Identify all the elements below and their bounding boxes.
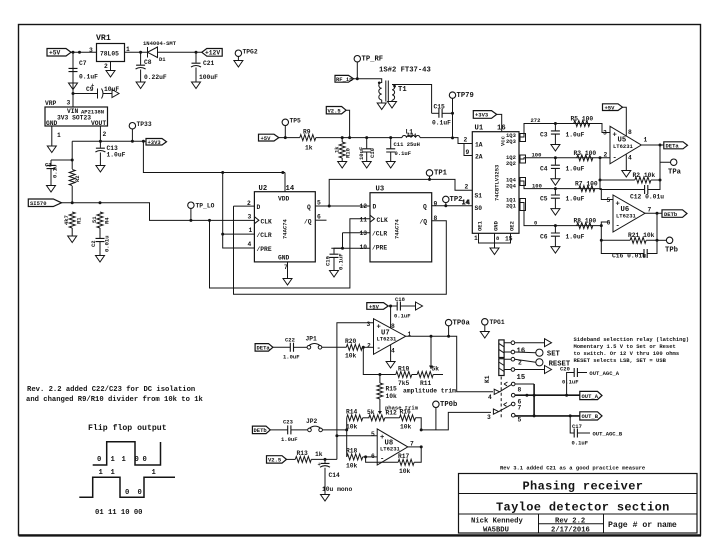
test point TP5 bbox=[282, 118, 301, 140]
test point TP_RF bbox=[354, 56, 383, 79]
svg-text:13: 13 bbox=[360, 230, 368, 237]
svg-text:3V3 SOT23: 3V3 SOT23 bbox=[57, 115, 91, 122]
svg-text:TPG1: TPG1 bbox=[490, 319, 505, 326]
svg-text:/CLR: /CLR bbox=[372, 231, 387, 238]
svg-text:3: 3 bbox=[367, 321, 371, 328]
svg-text:/CLR: /CLR bbox=[257, 232, 272, 239]
svg-text:R7 100: R7 100 bbox=[575, 181, 598, 188]
resistor R5 100 bbox=[574, 121, 590, 127]
svg-text:2Q3: 2Q3 bbox=[506, 138, 517, 145]
svg-text:1.0uF: 1.0uF bbox=[107, 152, 126, 159]
svg-text:4: 4 bbox=[248, 241, 252, 248]
U1 output row2 wire (100) bbox=[519, 158, 610, 159]
diode D1 1N4004-SMT bbox=[143, 40, 177, 63]
svg-text:+: + bbox=[91, 82, 95, 89]
svg-text:3: 3 bbox=[248, 214, 252, 221]
transformer T1 1S#2 FT37-43 bbox=[377, 67, 431, 114]
net flag DETb bbox=[662, 210, 687, 218]
U8 output node bbox=[408, 446, 421, 448]
K1 dashed link bbox=[500, 377, 502, 419]
svg-text:14: 14 bbox=[462, 200, 471, 208]
capacitor C10 10uF bbox=[366, 138, 368, 149]
svg-text:5: 5 bbox=[607, 197, 611, 204]
svg-text:1A: 1A bbox=[475, 142, 483, 149]
svg-text:1: 1 bbox=[408, 331, 412, 338]
svg-text:0.1uF: 0.1uF bbox=[572, 440, 589, 447]
IC U1 74CBTLV3253 bbox=[472, 125, 519, 234]
flipflop U2 74AC74 bbox=[254, 185, 315, 262]
svg-text:OUT_AGC_B: OUT_AGC_B bbox=[593, 431, 623, 438]
svg-text:1k: 1k bbox=[305, 145, 313, 152]
svg-text:-: - bbox=[613, 155, 617, 163]
wire RF_in to T1 bbox=[354, 79, 382, 83]
power flag +12V (input) bbox=[202, 49, 222, 57]
VRP GND pin1 bbox=[51, 126, 53, 146]
resistor R8 100 bbox=[577, 223, 593, 229]
U3 /Q wrap to U2 D bbox=[234, 206, 447, 294]
svg-text:78L05: 78L05 bbox=[100, 51, 119, 58]
wire 3V3 node row bbox=[72, 140, 146, 142]
svg-text:C22: C22 bbox=[285, 337, 295, 344]
wire +5V to VR1 bbox=[71, 51, 97, 53]
net flag DETb (audio input) bbox=[252, 426, 270, 434]
svg-text:1: 1 bbox=[99, 469, 104, 477]
svg-text:C21: C21 bbox=[203, 60, 215, 67]
RESET pushbutton bbox=[515, 359, 536, 362]
svg-text:TPa: TPa bbox=[668, 169, 682, 177]
capacitor C16 0.01u (U6 fb) bbox=[601, 240, 657, 253]
svg-text:C23: C23 bbox=[283, 419, 294, 426]
svg-text:R12: R12 bbox=[386, 410, 398, 417]
svg-text:R21 10k: R21 10k bbox=[628, 232, 655, 239]
svg-text:+: + bbox=[613, 132, 617, 140]
svg-text:DETb: DETb bbox=[664, 211, 678, 218]
capacitor C11 0.1uF bbox=[390, 138, 392, 149]
svg-text:C7: C7 bbox=[79, 60, 87, 67]
svg-text:0.01u: 0.01u bbox=[104, 235, 111, 252]
svg-text:0.1uF: 0.1uF bbox=[338, 253, 345, 270]
svg-text:Sideband selection relay (latc: Sideband selection relay (latching) bbox=[574, 336, 690, 343]
svg-text:OUT_AGC_A: OUT_AGC_A bbox=[589, 370, 619, 377]
svg-text:4: 4 bbox=[628, 155, 632, 162]
svg-text:DETa: DETa bbox=[257, 345, 271, 352]
U3 Q to U1 S0 bbox=[432, 205, 473, 207]
svg-text:C14: C14 bbox=[329, 472, 341, 479]
wire 3V3 down-left to SI570 node bbox=[71, 141, 73, 160]
svg-text:2Q2: 2Q2 bbox=[506, 160, 516, 167]
svg-text:VR1: VR1 bbox=[96, 34, 111, 43]
capacitor C20 0.1uF to OUT_AGC_A bbox=[567, 373, 575, 396]
wire SI570 LO row bbox=[62, 203, 255, 221]
svg-text:R8 100: R8 100 bbox=[574, 218, 597, 225]
capacitor C13 1.0uF bbox=[99, 141, 101, 148]
svg-text:RF_in: RF_in bbox=[336, 76, 353, 83]
svg-text:JP1: JP1 bbox=[306, 336, 318, 343]
op-amp U6 LT6231 bbox=[607, 195, 652, 232]
svg-text:OE2: OE2 bbox=[509, 221, 516, 231]
svg-text:5k: 5k bbox=[367, 409, 375, 416]
svg-text:C3: C3 bbox=[540, 132, 548, 139]
svg-text:+5V: +5V bbox=[261, 135, 272, 142]
svg-text:0.1uF: 0.1uF bbox=[79, 74, 98, 81]
U7 pin4 ground bbox=[390, 345, 392, 362]
svg-text:2A: 2A bbox=[475, 154, 483, 161]
svg-text:1: 1 bbox=[152, 469, 157, 477]
svg-text:+5V: +5V bbox=[49, 50, 61, 57]
svg-text:GND: GND bbox=[493, 220, 500, 231]
svg-text:16: 16 bbox=[517, 348, 526, 356]
svg-text:2: 2 bbox=[367, 343, 371, 350]
svg-text:DETa: DETa bbox=[666, 143, 680, 150]
op-amp U5 LT6231 bbox=[603, 126, 648, 164]
relay switch A bbox=[488, 382, 522, 406]
inductor L1 bbox=[402, 129, 420, 140]
test point TPb bbox=[657, 237, 678, 254]
svg-text:10k: 10k bbox=[386, 393, 398, 400]
test point TP79 bbox=[449, 92, 473, 138]
U6 output wire to DETb bbox=[645, 212, 662, 214]
capacitor C21 100uF bbox=[195, 52, 197, 63]
U2 D input wire bbox=[234, 205, 255, 207]
svg-text:3: 3 bbox=[67, 100, 71, 107]
svg-text:/PRE: /PRE bbox=[257, 246, 272, 253]
svg-text:GND: GND bbox=[278, 255, 290, 262]
svg-text:2: 2 bbox=[465, 184, 469, 191]
title block frame bbox=[459, 474, 698, 534]
svg-text:Rev. 2.2 added C22/C23 for DC: Rev. 2.2 added C22/C23 for DC isolation bbox=[27, 386, 195, 394]
svg-text:D: D bbox=[257, 204, 261, 211]
U1 output row3 wire (100) bbox=[519, 181, 613, 200]
svg-text:VOUT: VOUT bbox=[91, 120, 106, 127]
test point TP_LO bbox=[188, 202, 215, 222]
svg-text:1.0uF: 1.0uF bbox=[566, 132, 585, 139]
svg-text:15: 15 bbox=[505, 236, 513, 243]
svg-text:10uF: 10uF bbox=[358, 147, 365, 160]
svg-text:Page # or name: Page # or name bbox=[608, 521, 677, 530]
svg-text:11: 11 bbox=[360, 217, 368, 224]
svg-text:R11: R11 bbox=[420, 380, 432, 387]
svg-text:10u mono: 10u mono bbox=[322, 486, 352, 493]
U7 output bbox=[406, 336, 493, 392]
capacitor C22 1.0uF bbox=[273, 346, 290, 348]
svg-text:+3V3: +3V3 bbox=[475, 112, 489, 119]
svg-text:VDD: VDD bbox=[278, 196, 290, 203]
svg-text:10k: 10k bbox=[345, 353, 357, 360]
svg-text:1: 1 bbox=[644, 137, 648, 144]
op-amp U7 LT6231 (audio I) bbox=[367, 319, 412, 355]
svg-text:R9: R9 bbox=[303, 129, 311, 136]
svg-text:0: 0 bbox=[135, 456, 139, 464]
resistor R4 51 bbox=[97, 212, 103, 228]
svg-text:R2: R2 bbox=[74, 175, 81, 182]
svg-text:8: 8 bbox=[518, 387, 522, 394]
op-amp U8 LT6231 (audio Q) bbox=[371, 429, 414, 465]
U2 VDD drop bbox=[283, 173, 285, 192]
relay K1 coil 2 bbox=[499, 359, 504, 376]
resistor R16 10k bbox=[400, 415, 416, 421]
svg-text:C10: C10 bbox=[369, 148, 376, 158]
svg-text:/Q: /Q bbox=[420, 219, 428, 226]
capacitor C1 0.1uF bbox=[51, 159, 72, 161]
svg-text:2/17/2016: 2/17/2016 bbox=[551, 527, 590, 535]
svg-text:V2.5: V2.5 bbox=[328, 108, 342, 115]
svg-text:5: 5 bbox=[317, 200, 321, 207]
svg-text:WA5BDU: WA5BDU bbox=[483, 527, 509, 535]
svg-text:1: 1 bbox=[111, 469, 116, 477]
svg-text:amplitude trim: amplitude trim bbox=[403, 388, 456, 395]
svg-text:7k5: 7k5 bbox=[398, 380, 410, 387]
svg-text:R16: R16 bbox=[400, 409, 412, 416]
svg-text:U1: U1 bbox=[475, 125, 484, 133]
note sideband selection bbox=[574, 336, 690, 364]
svg-text:R2 10k: R2 10k bbox=[633, 172, 656, 179]
svg-text:0: 0 bbox=[138, 489, 142, 497]
VRP VOUT pin2 to 3V3 node bbox=[99, 126, 101, 141]
svg-text:5k: 5k bbox=[432, 366, 440, 373]
svg-text:1k: 1k bbox=[334, 146, 341, 153]
svg-text:100: 100 bbox=[532, 152, 542, 159]
svg-text:74AC74: 74AC74 bbox=[394, 218, 401, 239]
svg-text:+5V: +5V bbox=[605, 104, 616, 111]
wire JP1 to R20 bbox=[322, 346, 347, 348]
svg-text:TP_RF: TP_RF bbox=[362, 56, 384, 64]
svg-text:TP1: TP1 bbox=[434, 170, 448, 178]
svg-text:R17: R17 bbox=[398, 453, 410, 460]
svg-text:GND: GND bbox=[46, 120, 58, 127]
jumper JP1 bbox=[306, 336, 322, 350]
svg-text:2: 2 bbox=[464, 137, 468, 144]
svg-text:OUT_B: OUT_B bbox=[582, 413, 599, 420]
svg-text:R14: R14 bbox=[346, 409, 358, 416]
svg-text:3: 3 bbox=[89, 47, 93, 54]
svg-text:0.1uF: 0.1uF bbox=[562, 379, 579, 386]
svg-text:8: 8 bbox=[391, 323, 395, 330]
svg-text:C6: C6 bbox=[540, 234, 548, 241]
relay output wires to OUT_A bbox=[515, 394, 580, 396]
capacitor C14 10u mono bbox=[324, 459, 326, 463]
resistor R18 10k bbox=[347, 454, 363, 460]
svg-text:C17: C17 bbox=[572, 423, 582, 430]
svg-text:-: - bbox=[377, 345, 381, 353]
power flag +3V3 (U1) bbox=[473, 111, 501, 132]
svg-text:+3V3: +3V3 bbox=[148, 139, 162, 146]
svg-text:R18: R18 bbox=[346, 448, 358, 455]
capacitor C8 0.22uF bbox=[140, 52, 142, 65]
svg-text:1.0uF: 1.0uF bbox=[283, 354, 300, 361]
svg-text:LT6231: LT6231 bbox=[613, 143, 634, 150]
resistor R20 10k bbox=[346, 344, 362, 350]
svg-text:2: 2 bbox=[103, 131, 107, 138]
resistor R19 7k5 bbox=[396, 372, 412, 378]
wire Q1 up to S1 row bbox=[329, 179, 472, 206]
svg-text:10k: 10k bbox=[346, 424, 358, 431]
capacitor C17 0.1uF to OUT_AGC_B bbox=[570, 416, 574, 433]
svg-text:C16 0.01u: C16 0.01u bbox=[612, 253, 646, 260]
svg-text:TPG2: TPG2 bbox=[243, 49, 258, 56]
svg-text:OE1: OE1 bbox=[477, 220, 484, 231]
resistor R13 1k bbox=[287, 458, 296, 460]
svg-text:C19: C19 bbox=[325, 256, 332, 266]
svg-text:01 11 10 00: 01 11 10 00 bbox=[95, 509, 142, 517]
svg-text:K1: K1 bbox=[484, 375, 491, 383]
net flag OUT_A bbox=[580, 391, 602, 399]
svg-text:8: 8 bbox=[628, 129, 632, 136]
test point TP0a bbox=[445, 319, 470, 337]
resistor R1 4k7 bbox=[69, 212, 75, 228]
svg-text:2: 2 bbox=[104, 63, 108, 70]
jumper JP2 bbox=[306, 418, 322, 432]
svg-text:0: 0 bbox=[97, 456, 101, 464]
regulator VRP 3V3 SOT23 bbox=[45, 100, 108, 128]
resistor R14 10k bbox=[347, 415, 363, 421]
svg-text:C11 25uH: C11 25uH bbox=[394, 141, 420, 148]
capacitor C18 0.1uF (decoupling) bbox=[397, 302, 400, 311]
U1 output row4 wire (0) bbox=[519, 203, 610, 226]
svg-text:4: 4 bbox=[391, 348, 395, 355]
svg-text:6: 6 bbox=[607, 220, 611, 227]
svg-text:10k: 10k bbox=[346, 463, 358, 470]
svg-text:TP2: TP2 bbox=[450, 196, 463, 204]
svg-text:4k7: 4k7 bbox=[63, 215, 70, 225]
svg-text:R1: R1 bbox=[76, 217, 83, 224]
svg-text:CLK: CLK bbox=[377, 217, 389, 224]
svg-text:2Q4: 2Q4 bbox=[506, 183, 517, 190]
svg-text:LT6231: LT6231 bbox=[380, 446, 401, 453]
svg-text:TP_LO: TP_LO bbox=[196, 203, 215, 210]
svg-text:1: 1 bbox=[57, 132, 61, 139]
net flag RF_in bbox=[335, 75, 354, 82]
svg-text:1: 1 bbox=[474, 235, 478, 242]
svg-text:JP2: JP2 bbox=[306, 418, 318, 425]
svg-text:C18: C18 bbox=[395, 296, 406, 303]
net flag V2.5 bbox=[326, 107, 349, 138]
wire VIN column down to VRP bbox=[72, 52, 74, 107]
svg-text:15: 15 bbox=[517, 374, 526, 382]
svg-text:3: 3 bbox=[603, 130, 607, 137]
svg-text:-: - bbox=[616, 223, 620, 231]
trimmer R11 5k amplitude trim bbox=[417, 372, 433, 378]
pin16 wire to arrow bbox=[515, 342, 545, 344]
power flag +3V3 bbox=[146, 139, 167, 146]
svg-text:TP5: TP5 bbox=[290, 118, 302, 125]
test point TPG1 bbox=[480, 319, 505, 338]
U7 pin8 from +5V bbox=[390, 306, 392, 328]
svg-text:100: 100 bbox=[532, 182, 542, 189]
svg-text:/PRE: /PRE bbox=[372, 245, 387, 252]
svg-text:Rev 2.2: Rev 2.2 bbox=[555, 518, 585, 526]
svg-text:0.1u: 0.1u bbox=[52, 165, 59, 178]
svg-text:51: 51 bbox=[91, 216, 98, 223]
bias column to both + inputs bbox=[337, 323, 377, 460]
SET pushbutton bbox=[515, 351, 536, 354]
svg-text:0: 0 bbox=[143, 456, 147, 464]
VR1 pin2 ground bbox=[110, 62, 112, 71]
svg-text:1: 1 bbox=[122, 456, 127, 464]
capacitor C23 1.0uF bbox=[270, 429, 287, 431]
svg-text:1.0uF: 1.0uF bbox=[566, 196, 585, 203]
wire VR1 out to +12V flag bbox=[125, 51, 202, 53]
svg-text:VRP: VRP bbox=[45, 100, 57, 107]
capacitor C5 1.0uF bbox=[554, 189, 556, 195]
svg-text:10k: 10k bbox=[399, 468, 411, 475]
capacitor C12 0.01u (U5 fb) bbox=[600, 180, 660, 190]
resistor R3 100 bbox=[577, 155, 593, 161]
svg-text:3: 3 bbox=[487, 414, 491, 421]
svg-text:C5: C5 bbox=[540, 196, 548, 203]
U2 GND pin ground bbox=[287, 262, 289, 279]
test point TP0b bbox=[433, 401, 458, 430]
U5 output wire to DETa bbox=[641, 144, 664, 146]
wire RF bias row bbox=[279, 138, 473, 144]
svg-text:0.1uF: 0.1uF bbox=[395, 150, 412, 157]
U8 feedback R17 10k bbox=[366, 447, 422, 462]
svg-text:5: 5 bbox=[518, 417, 522, 424]
resistor R9 1k bbox=[300, 135, 316, 141]
svg-text:1N4004-SMT: 1N4004-SMT bbox=[143, 40, 177, 47]
svg-text:/Q: /Q bbox=[304, 219, 312, 226]
svg-text:S1: S1 bbox=[475, 193, 483, 200]
U3 /CLR /PRE with C19 bbox=[331, 233, 370, 249]
svg-text:0: 0 bbox=[125, 489, 129, 497]
power flag +5V (input top-left) bbox=[47, 49, 71, 57]
power flag +5V (U5) bbox=[603, 104, 627, 136]
pullup column to U2 /CLR /PRE bbox=[223, 173, 255, 249]
svg-text:D: D bbox=[373, 204, 377, 211]
svg-text:TP0b: TP0b bbox=[440, 401, 457, 409]
svg-text:2Q1: 2Q1 bbox=[506, 203, 517, 210]
svg-text:C20: C20 bbox=[560, 366, 570, 373]
power flag +5V (RF bias) bbox=[259, 134, 279, 142]
LO branch wrap to U3 CLK bbox=[210, 219, 371, 288]
test point TP1 bbox=[426, 170, 447, 181]
svg-text:CLK: CLK bbox=[261, 219, 273, 226]
svg-text:74CBTLV3253: 74CBTLV3253 bbox=[494, 164, 501, 201]
svg-text:1.0uF: 1.0uF bbox=[281, 436, 298, 443]
capacitor C2 0.01u bbox=[96, 238, 105, 241]
svg-text:R19: R19 bbox=[398, 366, 410, 373]
svg-text:D1: D1 bbox=[159, 56, 166, 63]
svg-text:LT6231: LT6231 bbox=[377, 336, 398, 343]
svg-text:to switch. Or 12 V thru 100 oh: to switch. Or 12 V thru 100 ohms bbox=[574, 350, 680, 357]
svg-text:0.22uF: 0.22uF bbox=[144, 74, 167, 81]
resistor R15 10k bbox=[377, 383, 383, 399]
svg-text:6: 6 bbox=[317, 214, 321, 221]
svg-text:SI570: SI570 bbox=[30, 200, 47, 207]
svg-text:R15: R15 bbox=[386, 386, 398, 393]
net flag V2.5 (bias) bbox=[267, 456, 287, 464]
svg-text:C12 0.01u: C12 0.01u bbox=[630, 194, 664, 201]
svg-text:R4: R4 bbox=[104, 217, 111, 224]
svg-text:272: 272 bbox=[531, 117, 541, 124]
svg-text:SET: SET bbox=[547, 351, 561, 359]
svg-text:C8: C8 bbox=[144, 59, 152, 66]
svg-text:2: 2 bbox=[518, 360, 522, 367]
svg-text:Q: Q bbox=[307, 204, 311, 211]
net flag SI570 bbox=[28, 199, 61, 207]
U2 Q output node bbox=[315, 205, 370, 207]
flipflop U3 74AC74 bbox=[370, 186, 432, 262]
test point TP33 bbox=[129, 121, 152, 141]
capacitor C9 10uF (to 5V dist arrow) bbox=[72, 92, 75, 95]
svg-text:R10: R10 bbox=[345, 148, 352, 158]
regulator VR1 78L05 bbox=[89, 34, 130, 70]
svg-text:Flip flop output: Flip flop output bbox=[88, 423, 167, 433]
svg-text:1k: 1k bbox=[315, 451, 323, 458]
svg-text:1.0uF: 1.0uF bbox=[566, 166, 585, 173]
svg-text:TP0a: TP0a bbox=[453, 320, 471, 328]
svg-text:TPb: TPb bbox=[665, 247, 678, 255]
svg-text:T1: T1 bbox=[398, 86, 407, 94]
